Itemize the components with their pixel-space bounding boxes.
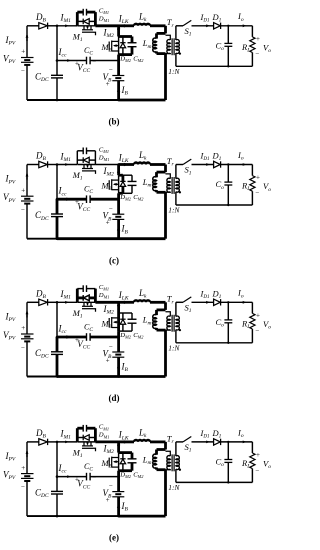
MOSFET M2 source arrow [114, 183, 119, 185]
junction dot at C_c tap [56, 336, 59, 339]
svg-text:CDC: CDC [35, 72, 49, 84]
secondary polarity dot [179, 191, 181, 193]
ground rail left segment [27, 376, 57, 378]
wire C_o bottom stub [227, 46, 229, 66]
node A junction dot [56, 25, 59, 28]
wire C_o top stub [227, 26, 229, 44]
svg-text:+: + [21, 186, 25, 194]
wire primary return down to rail [164, 192, 167, 238]
svg-text:DM2: DM2 [119, 194, 131, 202]
wire node B down to M2 drain (I_M2) [117, 165, 120, 176]
output bottom rail wire [176, 481, 253, 483]
current arrow I_M2 [117, 305, 120, 310]
wire C_o top stub [227, 165, 229, 183]
diode D_B [39, 23, 48, 29]
svg-text:CC: CC [84, 322, 93, 333]
svg-text:CM2: CM2 [133, 194, 144, 202]
wire V_PV positive lead (left vertical top) [26, 26, 28, 58]
current arrow I_o [243, 441, 247, 444]
current arrow I_PV [26, 451, 28, 457]
svg-text:+: + [106, 80, 110, 88]
primary polarity dot [162, 329, 164, 331]
switch S_1 blade [183, 297, 191, 302]
current arrow I_PV [26, 174, 28, 180]
svg-text:M2: M2 [101, 458, 112, 470]
junction dot C_o bottom [227, 342, 229, 344]
wire C_DC to bottom rail [56, 494, 58, 516]
ground rail middle segment [57, 515, 119, 517]
MOSFET M2 source arrow [114, 321, 119, 323]
battery V_PV [21, 195, 34, 197]
svg-text:CM2: CM2 [133, 55, 144, 63]
wire node A to M1 branch (I_M1 segment) [57, 25, 77, 27]
MOSFET M1 drain/source stubs [83, 26, 85, 30]
svg-text:Lk: Lk [138, 427, 147, 439]
ground rail right segment [119, 375, 166, 378]
wire D_M2 bottom stub [122, 48, 124, 55]
wire node A down to C_c tap [56, 442, 58, 477]
wire C_M2 top stub [131, 175, 133, 181]
MOSFET M2 gate bar and lead [108, 458, 110, 467]
magnetizing inductor L_m [155, 450, 158, 455]
MOSFET M2 connector stubs [112, 317, 119, 319]
svg-text:(b): (b) [109, 117, 120, 127]
svg-text:Tr: Tr [167, 156, 175, 168]
svg-text:Lk: Lk [138, 11, 147, 23]
body diode D_M2 (cathode up) [120, 42, 125, 44]
svg-text:VCC: VCC [77, 201, 90, 213]
snubber capacitor C_M2 [128, 458, 137, 460]
junction dot at C_c tap [56, 198, 59, 201]
wire M1 block to node B [95, 164, 118, 166]
wire corner down from top wire to L_m tap [164, 442, 167, 450]
svg-text:Icc: Icc [58, 324, 67, 336]
wire D_B cathode to node A [48, 25, 57, 27]
current arrow I_LK [124, 301, 129, 304]
svg-text:Io: Io [237, 427, 244, 439]
wire secondary top lead [175, 442, 177, 456]
wire node B to L_k with current I_LK [119, 301, 134, 304]
svg-text:VPV: VPV [3, 330, 16, 342]
magnetizing inductor L_m [155, 310, 158, 315]
current arrow I_M2 [117, 29, 120, 34]
current arrow I_o [243, 24, 247, 27]
wire secondary to switch S_1 [176, 164, 183, 166]
svg-text:−: − [92, 474, 96, 482]
MOSFET M1 drain/source stubs [83, 302, 85, 306]
node A junction dot [56, 441, 59, 444]
svg-text:D1: D1 [212, 151, 222, 163]
svg-text:IM2: IM2 [103, 27, 115, 39]
junction dot C_DC at rail [56, 375, 59, 378]
svg-text:Io: Io [237, 288, 244, 300]
MOSFET M2 channel bar [111, 457, 113, 468]
svg-text:IM1: IM1 [60, 13, 72, 25]
capacitor C_DC [51, 351, 63, 353]
svg-text:M1: M1 [72, 31, 83, 43]
wire output node to load R_L [251, 165, 253, 176]
wire M2 source node E down to battery [117, 193, 120, 214]
svg-text:DM2: DM2 [119, 471, 131, 479]
wire M2 source node E down to battery [117, 55, 120, 76]
wire through MOSFET M1 on main line [77, 25, 95, 27]
wire switch S_1 to diode D_1 [192, 164, 214, 166]
svg-text:D1: D1 [212, 428, 222, 440]
svg-text:Tr: Tr [167, 294, 175, 306]
svg-text:IM2: IM2 [103, 166, 115, 178]
svg-text:IM2: IM2 [103, 443, 115, 455]
svg-text:Co: Co [216, 179, 225, 191]
svg-text:VPV: VPV [3, 470, 16, 482]
svg-text:RL: RL [241, 181, 250, 193]
wire C_c branch right segment to node E [90, 476, 119, 478]
wire V_PV positive lead (left vertical top) [26, 165, 28, 197]
wire M1 block to node B [95, 301, 118, 304]
transformer T_r secondary winding [176, 178, 179, 192]
svg-text:D1: D1 [212, 12, 222, 24]
node A junction dot [56, 163, 59, 166]
svg-text:M1: M1 [72, 448, 83, 460]
wire battery V_B to bottom rail with current I_B [117, 219, 120, 238]
wire C_c branch left segment [57, 60, 86, 62]
diode D_1 [214, 299, 221, 305]
wire corner down from top wire to L_m tap [164, 26, 167, 34]
current arrow I_M2 [117, 445, 120, 450]
svg-text:M2: M2 [101, 318, 112, 330]
wire L_m top horizontal [157, 308, 166, 311]
wire output node to load R_L [251, 442, 253, 453]
switch S_1 blade [183, 159, 191, 164]
wire C_M1 row left [77, 150, 83, 152]
wire C_M1 row left [77, 11, 83, 14]
current arrow I_cc [66, 335, 71, 338]
wire D_1 to output node [221, 164, 253, 166]
wire D_1 to output node [221, 301, 253, 303]
svg-text:M2: M2 [101, 42, 112, 54]
wire M1 block to node B [95, 440, 118, 443]
wire D_M1 row right [89, 437, 95, 439]
current arrow I_LK [124, 163, 129, 166]
snubber box bottom wire to M2 source [119, 330, 132, 332]
transformer T_r core [171, 454, 173, 471]
wire C_c tap down to C_DC [56, 61, 58, 76]
svg-text:IB: IB [121, 362, 129, 374]
current arrow I_M1 [65, 441, 69, 444]
wire L_m top horizontal [157, 171, 166, 174]
inductor L_k [134, 300, 150, 302]
current arrow I_M2 [117, 168, 120, 173]
wire primary return down to rail [164, 470, 167, 516]
wire D_M2 top stub [122, 175, 125, 181]
svg-text:CM2: CM2 [133, 332, 144, 340]
svg-text:S1: S1 [185, 303, 192, 315]
MOSFET M2 through line drain-source [117, 313, 120, 331]
svg-text:DM1: DM1 [98, 292, 110, 300]
transformer T_r core [171, 315, 173, 332]
junction dot V_B at rail [117, 99, 120, 102]
svg-text:M1: M1 [72, 308, 83, 320]
current arrow I_PV [26, 312, 28, 318]
M1 clamp block right riser wire [94, 151, 96, 165]
body diode D_M2 (cathode up) [120, 318, 125, 320]
secondary polarity dot [179, 469, 181, 471]
svg-text:S1: S1 [185, 26, 192, 38]
wire V_PV positive lead (left vertical top) [26, 302, 28, 334]
svg-text:IPV: IPV [5, 312, 16, 324]
junction dot node E [117, 198, 120, 201]
load resistor R_L [250, 453, 255, 469]
wire R_L to output bottom rail [251, 53, 253, 67]
wire D_M1 row right [89, 20, 95, 22]
primary polarity dot [162, 52, 164, 54]
M1 clamp block left riser wire [76, 12, 79, 26]
junction dot C_DC at rail [56, 237, 59, 240]
svg-text:ID1: ID1 [200, 428, 210, 440]
MOSFET M1 channel bar [82, 305, 93, 307]
svg-text:DM1: DM1 [98, 16, 110, 24]
wire top left: V_PV to diode D_B [27, 25, 39, 27]
switch S_1 blade [183, 20, 191, 25]
svg-text:(c): (c) [109, 255, 119, 265]
current arrow I_D1 [206, 441, 210, 444]
wire corner down from top wire to L_m tap [164, 165, 167, 173]
wire D_M1 row left [77, 159, 83, 161]
svg-text:Vo: Vo [263, 319, 271, 331]
wire primary return down to rail [164, 54, 167, 100]
svg-text:−: − [109, 343, 113, 351]
magnetizing inductor L_m [155, 33, 158, 38]
node B junction dot [117, 25, 120, 28]
current arrow I_o [243, 301, 247, 304]
svg-text:DB: DB [35, 428, 47, 440]
wire battery V_B to bottom rail with current I_B [117, 81, 120, 100]
svg-text:IM1: IM1 [60, 289, 72, 301]
MOSFET M2 through line drain-source [118, 453, 120, 471]
output capacitor C_o [224, 42, 232, 44]
M1 clamp block left riser wire [76, 289, 79, 303]
wire secondary to switch S_1 [176, 301, 183, 303]
svg-text:Icc: Icc [58, 463, 67, 475]
primary polarity dot [162, 191, 164, 193]
wire C_M1 row right [87, 288, 96, 290]
transformer T_r secondary winding [176, 456, 179, 470]
svg-text:IB: IB [121, 85, 129, 97]
MOSFET M1 gate bar and lead [82, 170, 93, 172]
svg-text:+: + [256, 174, 260, 182]
ground rail middle segment [57, 237, 119, 240]
wire secondary bottom lead [175, 192, 177, 205]
M1 clamp block right riser wire [94, 12, 97, 26]
svg-text:1:N: 1:N [168, 483, 180, 492]
snubber box bottom wire to M2 source [119, 469, 132, 472]
body diode D_M2 (cathode up) [120, 180, 125, 182]
svg-text:S1: S1 [185, 442, 192, 454]
current arrow I_M1 [65, 24, 69, 27]
diode D_M1 (anode right, cathode left) [84, 19, 90, 25]
svg-text:CM2: CM2 [133, 471, 144, 479]
wire C_M1 row left [77, 427, 83, 430]
transformer T_r secondary winding [176, 316, 179, 330]
svg-text:CC: CC [84, 46, 93, 57]
svg-text:IB: IB [121, 224, 129, 236]
svg-text:Icc: Icc [58, 186, 67, 198]
capacitor C_M1 [82, 285, 84, 292]
wire secondary top lead [175, 26, 177, 40]
capacitor C_c [86, 473, 88, 481]
svg-text:Io: Io [237, 11, 244, 23]
svg-text:VPV: VPV [3, 192, 16, 204]
current arrow I_cc [66, 198, 71, 201]
wire C_c branch left segment [57, 476, 86, 478]
svg-text:Icc: Icc [58, 47, 67, 59]
svg-text:RL: RL [241, 458, 250, 470]
current arrow I_LK [124, 440, 129, 443]
wire D_B cathode to node A [48, 301, 57, 303]
MOSFET M2 gate bar and lead [108, 180, 110, 189]
svg-text:Lk: Lk [138, 288, 147, 300]
current arrow I_D1 [206, 163, 210, 166]
diode D_M1 (anode right, cathode left) [84, 295, 90, 301]
wire through MOSFET M1 on main line [77, 164, 95, 166]
wire D_M1 row left [77, 437, 83, 439]
svg-text:1:N: 1:N [168, 344, 180, 353]
capacitor C_c [86, 57, 88, 65]
wire V_PV negative lead (left vertical bottom) [26, 341, 28, 376]
wire battery V_B to bottom rail with current I_B [117, 497, 120, 516]
ground rail left segment [27, 238, 57, 240]
MOSFET M2 gate bar and lead [108, 42, 110, 51]
wire node A down to C_c tap [56, 302, 58, 337]
svg-text:CM1: CM1 [99, 146, 109, 154]
MOSFET M2 gate bar and lead [108, 318, 110, 327]
capacitor C_c [86, 195, 88, 203]
wire node A to M1 branch (I_M1 segment) [57, 441, 77, 443]
wire L_m bottom horizontal [157, 52, 166, 55]
current arrow I_D1 [206, 301, 210, 304]
svg-text:D1: D1 [212, 288, 222, 300]
transformer T_r primary winding [166, 35, 171, 40]
svg-text:−: − [109, 205, 113, 213]
MOSFET M1 gate bar and lead [82, 447, 93, 449]
junction dot node E [117, 475, 120, 478]
current arrow I_B [117, 226, 120, 231]
MOSFET M1 drain/source stubs [83, 442, 85, 446]
wire C_c tap down to C_DC [56, 337, 59, 352]
MOSFET M1 gate bar and lead [82, 31, 93, 33]
transformer T_r core [171, 38, 173, 55]
inductor L_k [134, 24, 150, 26]
svg-text:VCC: VCC [77, 479, 90, 491]
wire R_L to output bottom rail [251, 191, 253, 205]
transformer T_r core [171, 177, 173, 194]
wire node B to L_k with current I_LK [119, 440, 134, 443]
junction dot node E [117, 336, 120, 339]
MOSFET M1 channel bar [82, 445, 93, 447]
wire D_M2 bottom stub [122, 186, 125, 193]
svg-text:−: − [21, 67, 25, 75]
output bottom rail wire [176, 65, 253, 67]
wire node A down to C_c tap [56, 26, 58, 61]
MOSFET M2 through line drain-source [118, 175, 120, 193]
battery V_B [112, 213, 124, 215]
wire D_M2 top stub [122, 313, 124, 319]
junction dot V_B at rail [117, 515, 120, 518]
svg-text:DM1: DM1 [98, 432, 110, 440]
wire M2 source node E down to battery [117, 471, 120, 492]
svg-text:DB: DB [35, 151, 47, 163]
capacitor C_DC [51, 490, 63, 492]
svg-text:DM1: DM1 [98, 154, 110, 162]
svg-text:CDC: CDC [35, 348, 49, 360]
svg-text:−: − [21, 206, 25, 214]
svg-text:Lm: Lm [142, 454, 152, 466]
svg-text:+: + [256, 311, 260, 319]
wire L_m bottom horizontal [157, 468, 166, 471]
svg-text:IM1: IM1 [60, 151, 72, 163]
svg-text:−: − [21, 344, 25, 352]
current arrow I_B [117, 503, 120, 508]
wire D_B cathode to node A [48, 441, 57, 443]
current arrow I_o [243, 163, 247, 166]
M1 clamp block left riser wire [76, 151, 78, 165]
junction dot C_DC at rail [56, 515, 59, 518]
svg-text:Tr: Tr [167, 17, 175, 29]
junction dot C_o bottom [227, 204, 229, 206]
svg-text:CM1: CM1 [99, 8, 109, 16]
output bottom rail wire [176, 342, 253, 344]
snubber box top wire over M2 [119, 312, 132, 314]
svg-text:Tr: Tr [167, 433, 175, 445]
svg-text:ILK: ILK [118, 152, 129, 164]
svg-text:+: + [21, 324, 25, 332]
svg-text:IM2: IM2 [103, 304, 115, 316]
current arrow I_M1 [65, 301, 69, 304]
svg-text:Lm: Lm [142, 177, 152, 189]
svg-text:DM2: DM2 [119, 332, 131, 340]
svg-text:CC: CC [84, 185, 93, 196]
svg-text:Co: Co [216, 41, 225, 53]
svg-text:−: − [255, 466, 259, 474]
wire C_M1 row right [87, 150, 96, 152]
capacitor C_DC [51, 74, 63, 76]
svg-text:CC: CC [84, 462, 93, 473]
svg-text:M2: M2 [101, 181, 112, 193]
wire D_M2 top stub [122, 37, 124, 43]
transformer T_r primary winding [166, 312, 171, 317]
svg-text:Io: Io [237, 150, 244, 162]
svg-text:Vo: Vo [263, 181, 271, 193]
svg-text:+: + [106, 356, 110, 364]
wire switch S_1 to diode D_1 [192, 441, 214, 443]
svg-text:IM1: IM1 [60, 429, 72, 441]
MOSFET M2 channel bar [111, 41, 113, 52]
wire node B to L_k with current I_LK [119, 24, 134, 27]
wire output node to load R_L [251, 302, 253, 313]
wire C_M2 bottom stub [131, 463, 134, 471]
wire secondary top lead [175, 302, 177, 316]
wire D_M2 bottom stub [122, 324, 124, 331]
svg-text:−: − [109, 482, 113, 490]
battery V_PV [21, 473, 34, 475]
wire V_PV negative lead (left vertical bottom) [26, 65, 28, 100]
battery V_B [112, 351, 124, 353]
svg-text:(d): (d) [109, 393, 120, 403]
wire R_L to output bottom rail [251, 469, 253, 483]
svg-text:CM1: CM1 [99, 284, 109, 292]
wire C_o top stub [227, 302, 229, 320]
wire C_DC to bottom rail [56, 78, 58, 100]
junction dot C_o top [227, 441, 229, 443]
